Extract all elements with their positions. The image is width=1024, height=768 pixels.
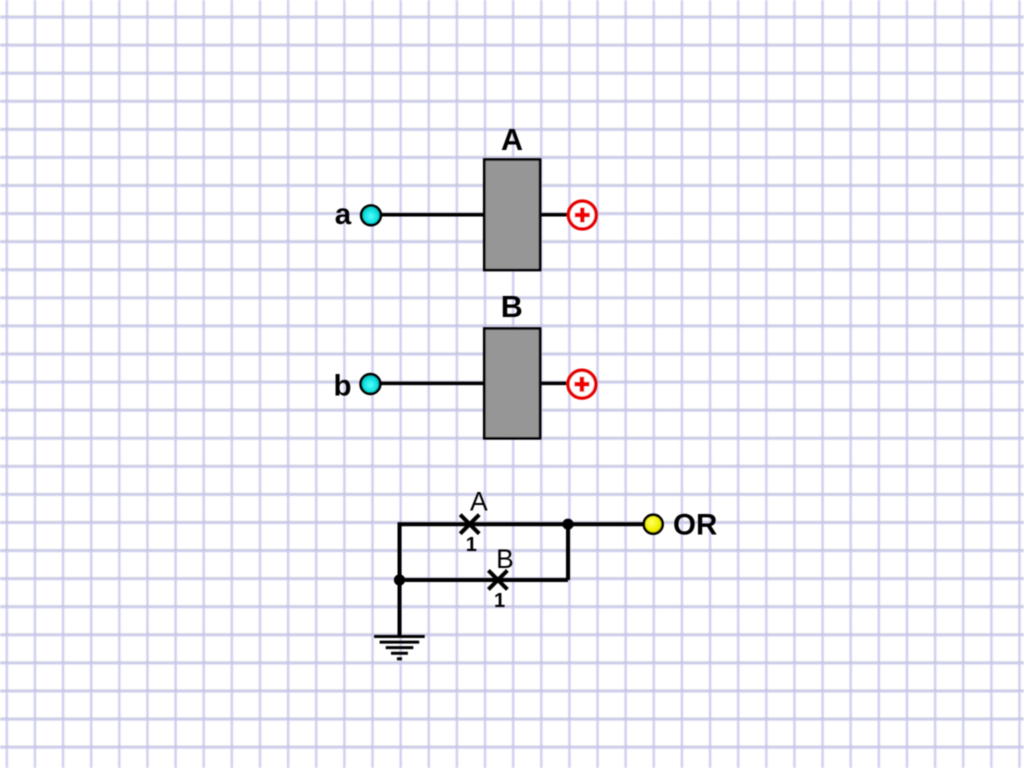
svg-text:a: a [335, 198, 352, 231]
svg-text:B: B [496, 544, 514, 574]
svg-text:b: b [333, 369, 351, 402]
svg-text:1: 1 [494, 590, 505, 612]
svg-text:OR: OR [673, 508, 717, 541]
svg-text:A: A [470, 486, 488, 516]
svg-text:B: B [501, 290, 523, 324]
svg-text:A: A [501, 123, 523, 157]
svg-text:1: 1 [466, 534, 477, 556]
